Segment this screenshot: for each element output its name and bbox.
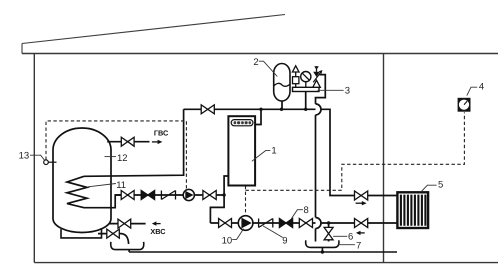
boiler 1 bbox=[228, 116, 255, 185]
pipe: cold water XVS inlet bbox=[109, 223, 146, 225]
svg-text:13: 13 bbox=[19, 150, 30, 161]
junction node at funnel outlet bbox=[321, 250, 324, 253]
pipe: boiler top connection bbox=[255, 109, 261, 124]
junction node at boiler return bbox=[222, 193, 225, 196]
svg-text:4: 4 bbox=[479, 82, 484, 93]
funnel 7 outlet bbox=[321, 247, 323, 252]
tank drain funnel bbox=[111, 242, 144, 250]
tank drain valve bbox=[107, 229, 120, 238]
ceiling line bbox=[22, 53, 498, 55]
label 2 bbox=[253, 57, 277, 77]
svg-text:ГВС: ГВС bbox=[154, 129, 169, 138]
svg-text:6: 6 bbox=[348, 232, 353, 243]
supply flow arrow bbox=[356, 201, 367, 205]
valve after charge pump bbox=[203, 191, 216, 200]
label 7 bbox=[338, 241, 361, 252]
svg-text:3: 3 bbox=[345, 85, 350, 96]
return flow arrow bbox=[356, 231, 365, 235]
pressure gauge bbox=[305, 82, 307, 88]
label 9 bbox=[263, 226, 288, 247]
safety valve bbox=[313, 80, 321, 87]
dashed control line: to room thermostat 4 bbox=[246, 112, 465, 190]
label 8 bbox=[291, 205, 308, 219]
heating coil 11 bbox=[67, 176, 121, 207]
valve on boiler flow bbox=[201, 105, 214, 114]
balancing valve (black) on coil return bbox=[141, 191, 154, 200]
radiator 5 bbox=[397, 192, 428, 228]
pipe: tank drain row bbox=[98, 234, 129, 244]
svg-text:ХВС: ХВС bbox=[150, 227, 166, 236]
pipe: hot water GVS outlet bbox=[107, 141, 149, 143]
expansion vessel 2 bbox=[274, 64, 290, 110]
interior wall bbox=[383, 54, 385, 263]
svg-text:8: 8 bbox=[304, 205, 309, 216]
temperature sensor 13 bbox=[44, 160, 57, 165]
pipe: tank coil return row bbox=[115, 194, 224, 196]
XVS flow arrow bbox=[152, 221, 161, 225]
sewer drain line bbox=[129, 251, 397, 253]
pipe crossover hump top bbox=[316, 104, 322, 115]
label 6 bbox=[333, 232, 353, 243]
svg-text:12: 12 bbox=[117, 153, 128, 164]
dashed control line: sensor 13 to charge pump bbox=[46, 121, 186, 189]
label 5 bbox=[421, 180, 443, 192]
pipe: boiler flow manifold and radiator supply bbox=[184, 109, 398, 195]
label 3 bbox=[318, 85, 350, 96]
check valve on coil return bbox=[161, 191, 175, 200]
pipe crossover hump bottom bbox=[316, 218, 322, 229]
circulation pump 10 bbox=[238, 216, 253, 231]
valve on coil return bbox=[121, 191, 134, 200]
pipe: bottom return row to radiator bbox=[210, 222, 397, 224]
radiator supply valve bbox=[355, 191, 368, 200]
pipe: boiler bottom connection bbox=[224, 176, 228, 195]
check valve 9 bbox=[259, 219, 273, 228]
pipe: make-up branch to valve 6 bbox=[328, 223, 330, 242]
make-up valve 6 (vertical) bbox=[324, 227, 333, 239]
left wall bbox=[33, 54, 35, 263]
label 10 bbox=[222, 229, 244, 247]
storage tank 12 bbox=[53, 128, 111, 233]
valve on return row bbox=[219, 219, 232, 228]
balancing valve 8 (black) bbox=[279, 219, 292, 228]
pipe: riser to tank coil and coil return row bbox=[84, 109, 184, 176]
tank funnel outlet bbox=[128, 250, 130, 252]
pipe: drain drop pipe bbox=[315, 115, 317, 242]
safety group 3 bbox=[292, 66, 322, 110]
svg-text:9: 9 bbox=[282, 236, 287, 247]
label 13 bbox=[19, 150, 45, 161]
floor line bbox=[34, 262, 498, 264]
svg-text:5: 5 bbox=[438, 180, 443, 191]
roof line bbox=[22, 15, 285, 44]
svg-text:7: 7 bbox=[356, 241, 361, 252]
tank base stand bbox=[61, 229, 102, 238]
eave edge bbox=[21, 44, 23, 54]
junction node dots on manifold bbox=[259, 108, 262, 111]
junction node at make-up branch bbox=[327, 221, 330, 224]
air vent bbox=[295, 72, 297, 87]
svg-text:1: 1 bbox=[271, 145, 276, 156]
svg-text:11: 11 bbox=[116, 180, 126, 191]
room thermostat 4 bbox=[458, 98, 471, 112]
GVS flow arrow bbox=[152, 140, 163, 144]
label 11 bbox=[88, 180, 126, 191]
svg-text:10: 10 bbox=[222, 235, 233, 246]
charge pump bbox=[183, 189, 194, 200]
radiator return valve bbox=[355, 219, 368, 228]
label 1 bbox=[252, 145, 277, 161]
label 4 bbox=[467, 82, 484, 96]
pipe: elbow to return row bbox=[210, 195, 224, 223]
pipe: safety valve discharge bbox=[316, 75, 326, 104]
label 12 bbox=[105, 153, 128, 164]
dashed control line: boiler to pump 10 bbox=[245, 186, 247, 215]
valve on return row right bbox=[299, 219, 312, 228]
valve on GVS outlet bbox=[121, 137, 134, 146]
svg-text:2: 2 bbox=[253, 57, 258, 68]
drain funnel 7 bbox=[306, 240, 339, 247]
valve on XVS inlet bbox=[118, 219, 131, 228]
